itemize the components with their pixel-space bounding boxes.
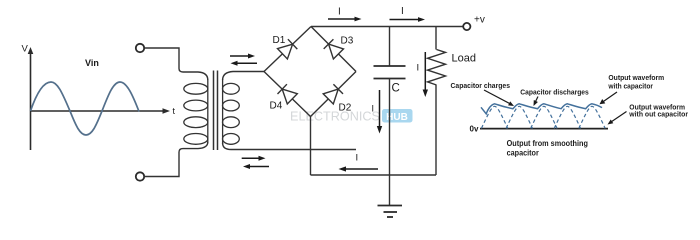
waveform ripple with capacitor [481, 104, 602, 114]
watermark HUB box [382, 109, 413, 123]
axis V arrowhead [28, 47, 34, 54]
current arrow I (return rail) [339, 166, 379, 171]
transformer primary terminal bottom [136, 172, 144, 180]
arrow left (top pair) [231, 61, 258, 66]
svg-text:with capacitor: with capacitor [608, 82, 654, 91]
wire load branch top [435, 27, 437, 50]
sine wave Vin [31, 82, 140, 135]
svg-text:Load: Load [452, 53, 476, 65]
svg-text:D2: D2 [339, 103, 352, 114]
wire bridge bottom node down [310, 117, 312, 176]
capacitor C [374, 66, 406, 79]
transformer primary winding strand [207, 79, 209, 143]
svg-text:capacitor: capacitor [507, 148, 540, 158]
wire primary bottom [144, 142, 207, 177]
arrow right (bottom pair) [242, 156, 266, 161]
svg-text:+v: +v [474, 15, 485, 26]
diode D2 [323, 84, 343, 104]
transformer secondary winding loops [223, 83, 240, 144]
svg-text:I: I [417, 63, 420, 74]
svg-text:0v: 0v [470, 125, 479, 134]
wire capacitor branch bottom to ground [389, 79, 391, 206]
current arrow I (load branch) [423, 52, 428, 97]
svg-text:ELECTRONICS: ELECTRONICS [290, 109, 380, 124]
diode D3 [324, 39, 344, 59]
transformer primary winding loops [184, 83, 208, 144]
pointer arrow (capacitor discharges) [534, 97, 539, 107]
ground [378, 206, 403, 218]
axis V (vertical) [30, 52, 32, 150]
svg-text:Output from smoothing: Output from smoothing [507, 138, 588, 148]
svg-text:I: I [372, 104, 375, 114]
pointer arrow (output waveform with capacitor) [600, 92, 618, 104]
wire secondary top to bridge left node [223, 72, 264, 81]
svg-text:D3: D3 [341, 36, 354, 47]
waveform rectified humps (dashed) [481, 106, 605, 128]
svg-text:C: C [392, 83, 400, 95]
svg-text:t: t [173, 106, 176, 116]
wire top rail [311, 26, 463, 28]
wire secondary bottom [223, 143, 356, 150]
diode D1 [278, 39, 298, 59]
svg-text:Vin: Vin [85, 58, 99, 68]
wire bottom return rail [311, 174, 437, 176]
bridge edge left-top [264, 27, 311, 72]
svg-text:Capacitor charges: Capacitor charges [451, 81, 511, 90]
terminal +v [463, 23, 470, 30]
current arrow I (rail 1) [328, 17, 362, 22]
svg-text:I: I [338, 7, 341, 18]
transformer core [214, 71, 218, 151]
diode D4 [278, 84, 298, 104]
bridge edge top-right [311, 27, 356, 72]
axis t arrowhead [163, 108, 171, 114]
pointer arrow (capacitor charges) [484, 90, 514, 106]
current arrow I (rail 2) [390, 17, 426, 22]
bridge edge bottom-left [264, 72, 311, 117]
svg-text:with out capacitor: with out capacitor [628, 110, 688, 119]
current arrow I (capacitor branch) [377, 90, 382, 134]
axis t (horizontal) [31, 110, 165, 112]
svg-text:V: V [22, 44, 29, 55]
transformer primary terminal top [136, 44, 144, 52]
wire primary top [144, 48, 207, 80]
resistor Load [428, 50, 446, 86]
waveform baseline [480, 128, 608, 130]
bridge edge right-bottom [311, 72, 357, 117]
svg-text:I: I [401, 6, 404, 17]
arrow right (top pair) [230, 54, 255, 59]
wire load branch bottom [435, 85, 437, 175]
transformer secondary winding strand [222, 79, 224, 144]
arrow left (bottom pair) [243, 164, 269, 169]
svg-text:Capacitor discharges: Capacitor discharges [520, 88, 589, 97]
pointer arrow (output waveform with out capacitor) [608, 112, 627, 125]
svg-text:I: I [356, 153, 359, 164]
svg-text:D4: D4 [270, 101, 283, 112]
wire capacitor branch top [389, 27, 391, 67]
svg-text:D1: D1 [273, 35, 286, 46]
